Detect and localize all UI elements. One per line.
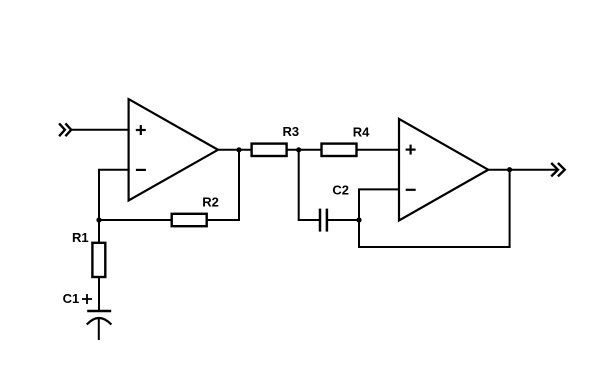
svg-text:C2: C2 xyxy=(332,182,349,197)
svg-text:R2: R2 xyxy=(202,195,219,210)
svg-text:C1: C1 xyxy=(63,291,80,306)
svg-text:R3: R3 xyxy=(282,124,299,139)
svg-text:R4: R4 xyxy=(353,124,370,139)
svg-text:R1: R1 xyxy=(72,230,89,245)
